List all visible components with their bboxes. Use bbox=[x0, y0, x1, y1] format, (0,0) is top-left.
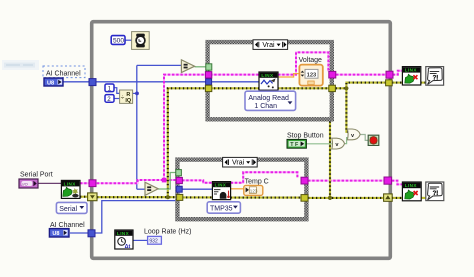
dropdown: TMP35 bbox=[207, 202, 240, 213]
case structure C2 border bbox=[177, 160, 306, 220]
VI: simple error handler top bbox=[426, 67, 444, 86]
tunnel: magenta loop left bbox=[89, 180, 96, 187]
wire: AI Channel (bottom) to tunnel and up to case 2 bbox=[70, 189, 179, 233]
loop condition terminal (stop) bbox=[368, 135, 379, 145]
svg-text:LINX: LINX bbox=[64, 181, 77, 186]
svg-text:LINX: LINX bbox=[117, 231, 130, 236]
wire: stop button to or gate 1 bbox=[306, 143, 332, 145]
svg-text:?!: ?! bbox=[433, 75, 439, 81]
tunnel: blue AI top on loop bbox=[89, 79, 96, 86]
svg-text:Temp C: Temp C bbox=[245, 178, 269, 185]
svg-text:Vrai: Vrai bbox=[232, 160, 245, 167]
tunnel: magenta on case 1 left bbox=[205, 72, 211, 78]
control: Serial Port VISA terminal bbox=[19, 179, 38, 188]
wire: loop rate constant to LINX wait bbox=[133, 239, 148, 241]
or gate 1 bbox=[332, 138, 345, 149]
svg-text:Voltage: Voltage bbox=[299, 57, 322, 64]
svg-text:LINX: LINX bbox=[405, 183, 418, 188]
wire: magenta case 2 tunnel to loop tunnel bbox=[308, 180, 384, 182]
tunnel: error on case 1 left bbox=[205, 85, 211, 91]
svg-text:Loop Rate (Hz): Loop Rate (Hz) bbox=[144, 229, 191, 236]
wire: or gate 2 to loop condition bbox=[361, 135, 369, 141]
wire: magenta LINX resource base (light) bbox=[80, 52, 402, 184]
wire: inside case 1 blue to Analog Read bbox=[210, 81, 261, 83]
svg-text:1: 1 bbox=[108, 85, 112, 92]
control: stop button TF terminal bbox=[287, 139, 306, 148]
wire: quotient output to junction bbox=[133, 92, 138, 94]
control: AI Channel bottom U8 terminal bbox=[49, 229, 69, 238]
svg-text:TMP35: TMP35 bbox=[210, 206, 233, 213]
svg-text:Δt: Δt bbox=[125, 244, 131, 250]
label AI Channel top bbox=[43, 66, 85, 78]
wire: constant 2 to quotient node bbox=[114, 98, 120, 100]
wire: magenta inside case 1 to Analog Read bbox=[210, 74, 259, 76]
svg-text:LINX: LINX bbox=[405, 68, 418, 73]
shift register right bbox=[384, 194, 393, 201]
tunnel: blue AI bottom on loop bbox=[88, 230, 95, 237]
svg-text:2: 2 bbox=[107, 96, 111, 103]
svg-text:LINX: LINX bbox=[215, 182, 227, 187]
indicator: Temp C numeric terminal bbox=[244, 185, 263, 195]
tunnel: blue on case 2 left bbox=[176, 186, 182, 192]
VI: LINX Open bbox=[61, 180, 80, 198]
wire: blue vertical trunk x=137 bbox=[136, 65, 138, 189]
wire: magenta riser to case 1 bbox=[164, 75, 206, 180]
svg-text:932: 932 bbox=[149, 239, 158, 245]
comparator 2 (not equal) bbox=[145, 182, 158, 195]
svg-text:Serial Port: Serial Port bbox=[20, 172, 53, 179]
case 2 selector label Vrai bbox=[223, 157, 258, 167]
junction error near case 1 right bbox=[344, 86, 348, 90]
tunnel: error loop right top bbox=[386, 80, 393, 86]
tunnel: selector case 1 bbox=[206, 64, 212, 70]
tunnel: blue AI top on case 1 bbox=[206, 79, 212, 85]
tunnel: magenta loop right top bbox=[386, 71, 393, 78]
wire: magenta case 1 tunnel to loop tunnel bbox=[336, 74, 386, 76]
svg-text:Analog Read: Analog Read bbox=[248, 95, 289, 102]
tunnel: magenta on case 1 right bbox=[329, 71, 336, 78]
svg-text:123: 123 bbox=[307, 72, 317, 78]
svg-text:1 Chan: 1 Chan bbox=[254, 103, 277, 110]
wire: magenta inside case 2 to TMP35 bbox=[182, 180, 212, 182]
svg-text:U8: U8 bbox=[52, 231, 59, 237]
wire: magenta LINX resource from open icon through loop tunnel bbox=[80, 52, 402, 184]
svg-text:123: 123 bbox=[250, 188, 258, 193]
dropdown: Serial bbox=[56, 202, 87, 213]
shift register left bbox=[88, 193, 97, 201]
svg-text:AI Channel: AI Channel bbox=[46, 70, 81, 77]
tunnel: error on case 1 right bbox=[329, 85, 336, 91]
wire: constant 1 to quotient node bbox=[114, 88, 120, 94]
VI: LINX close top bbox=[402, 67, 420, 85]
wire: blue to comparator 1 bbox=[137, 64, 182, 66]
VI: LINX TMP35 inside case 2 bbox=[212, 182, 230, 200]
wire: boolean comparator 2 to case 2 selector bbox=[158, 173, 176, 190]
function: quotient and remainder bbox=[120, 90, 133, 104]
or gate 2 bbox=[347, 129, 360, 140]
svg-text:?!: ?! bbox=[433, 191, 439, 197]
wire: orange DBL TMP35 to Temp C indicator bbox=[231, 188, 244, 190]
constant loop rate value bbox=[148, 236, 162, 244]
tunnel: magenta on case 2 right bbox=[301, 177, 308, 184]
wire: magenta over Temp C label and out of case 2 bbox=[231, 172, 298, 182]
svg-text:500: 500 bbox=[113, 38, 124, 45]
svg-text:Vrai: Vrai bbox=[262, 42, 275, 49]
wire: magenta loop tunnel to LINX close 2 bbox=[392, 181, 403, 185]
control: AI Channel top U8 terminal bbox=[44, 78, 63, 86]
wire: constant 500 to wait icon bbox=[125, 39, 132, 41]
ghost tooltip remnant top-left bbox=[2, 60, 39, 70]
svg-text:Stop Button: Stop Button bbox=[287, 133, 324, 140]
comparator 1 (not equal) bbox=[181, 60, 194, 73]
dropdown: Analog Read 1 Chan bbox=[245, 91, 296, 110]
wire: boolean comparator 1 to case 1 selector bbox=[195, 66, 207, 68]
junction error at riser left bbox=[166, 195, 170, 199]
svg-text:I/O: I/O bbox=[22, 181, 27, 186]
svg-text:LINX: LINX bbox=[261, 73, 274, 78]
VI: LINX Analog Read inside case 1 bbox=[259, 72, 278, 90]
indicator: Voltage numeric terminal bbox=[299, 65, 322, 86]
constant 500 bbox=[111, 36, 125, 45]
VI: simple error handler bottom bbox=[426, 182, 444, 201]
tunnel: error on case 2 left bbox=[177, 194, 183, 200]
function: wait until next ms multiple bbox=[132, 32, 150, 50]
junction error at bottom run bbox=[328, 196, 332, 200]
wire: magenta loop tunnel to LINX close 1 bbox=[393, 71, 403, 75]
junction blue quotient bbox=[135, 92, 139, 96]
tunnel: error on case 2 right bbox=[301, 195, 308, 202]
junction magenta at riser bbox=[162, 178, 167, 183]
wire: orange DBL Analog Read to Voltage indicator bbox=[278, 74, 300, 77]
svg-text:U8: U8 bbox=[47, 80, 54, 86]
VI: LINX wait (loop rate) bbox=[115, 230, 133, 250]
VI: LINX close bottom bbox=[402, 182, 421, 201]
wire: or gate 1 to or gate 2 bbox=[345, 138, 349, 144]
error wire group (olive with black dashes) bbox=[80, 83, 426, 198]
wire: VISA serial port to LINX open bbox=[38, 182, 62, 184]
tunnel: magenta loop right bottom bbox=[384, 177, 392, 184]
while loop W1 border bbox=[92, 22, 391, 259]
svg-text:IQ: IQ bbox=[125, 98, 131, 104]
wire: magenta over Voltage indicator and out of case 1 bbox=[278, 52, 328, 74]
case 1 selector label Vrai bbox=[253, 40, 288, 50]
constant 2 bbox=[105, 95, 114, 103]
svg-text:÷: ÷ bbox=[121, 95, 125, 102]
tunnel: magenta on case 2 left bbox=[176, 177, 182, 183]
wire: blue to comparator 2 bbox=[137, 188, 146, 190]
wire: AI Channel (top) blue U8 to case tunnel bbox=[63, 81, 206, 83]
case structure C1 border bbox=[208, 42, 332, 119]
tunnel: selector case 2 bbox=[176, 170, 182, 176]
svg-text:Serial: Serial bbox=[59, 206, 77, 213]
constant 1 bbox=[105, 84, 114, 92]
wire: blue inside case 2 to TMP35 bbox=[181, 188, 213, 190]
svg-text:T F: T F bbox=[290, 142, 299, 148]
